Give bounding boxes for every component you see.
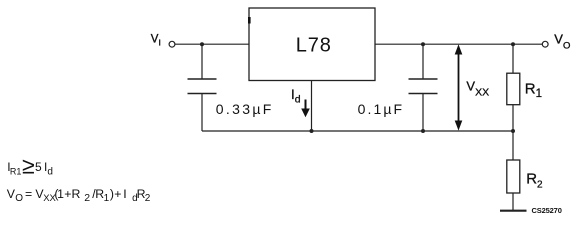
svg-text:R: R (72, 187, 81, 201)
junction R1 top node (511, 42, 515, 46)
svg-text:0.1µF: 0.1µF (358, 101, 405, 117)
svg-text:VXX: VXX (466, 78, 489, 98)
svg-text:(1: (1 (54, 187, 64, 201)
junction C1 top node (200, 42, 204, 46)
measurement arrow VXX (455, 44, 463, 130)
regulator U1 L78 (248, 8, 375, 81)
svg-text:VI: VI (151, 34, 161, 48)
wire C1 top lead (201, 44, 203, 79)
junction Id bottom node (310, 129, 314, 133)
formula VO = VXX(1+R2/R1)+ IdR2 (7, 187, 151, 204)
svg-text:L78: L78 (296, 35, 332, 57)
svg-text:Id: Id (291, 86, 301, 106)
wire ground pin Id (311, 81, 313, 132)
terminal VO (542, 41, 548, 47)
svg-text:≥: ≥ (22, 153, 35, 179)
svg-text:d: d (47, 166, 53, 177)
ground (500, 210, 527, 212)
svg-text:5: 5 (35, 160, 42, 174)
junction C2 bottom node (421, 129, 425, 133)
wire input (175, 43, 249, 45)
svg-text:2: 2 (84, 192, 90, 204)
svg-text:O: O (15, 193, 23, 204)
formula IR1 >= 5 Id (7, 153, 53, 179)
capacitor C1 (188, 79, 217, 94)
wire ground rail (202, 130, 513, 132)
svg-text:R2: R2 (526, 171, 543, 191)
svg-text:2: 2 (145, 193, 151, 204)
terminal VI (169, 41, 175, 47)
svg-text:R1: R1 (10, 166, 22, 176)
wire C2 bottom lead (422, 94, 424, 132)
svg-text:CS25270: CS25270 (532, 206, 562, 215)
svg-text:=: = (25, 187, 32, 201)
resistor R1 (507, 44, 520, 131)
svg-text:VO: VO (554, 32, 570, 52)
wire C2 top lead (422, 44, 424, 79)
svg-text:R1: R1 (525, 80, 542, 100)
svg-text:I: I (123, 187, 126, 201)
junction C2 top node (421, 42, 425, 46)
current arrow Id (301, 100, 310, 118)
wire C1 bottom lead (201, 94, 203, 132)
svg-text:1: 1 (104, 193, 110, 204)
capacitor C2 (409, 79, 438, 94)
svg-text:+: + (114, 187, 121, 201)
resistor R2 (507, 131, 520, 210)
svg-text:+: + (64, 187, 71, 201)
junction R1 bottom node (511, 129, 515, 133)
svg-text:0.33µF: 0.33µF (216, 101, 274, 117)
wire output (375, 43, 542, 45)
